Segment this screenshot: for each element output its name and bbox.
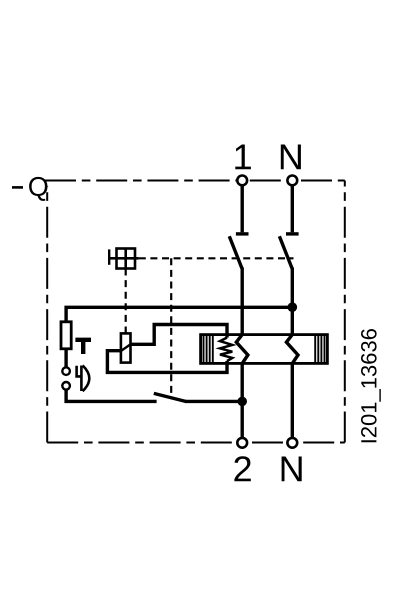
trip coil diagonal bbox=[121, 344, 131, 351]
wire test contact to bottom run bbox=[66, 390, 157, 402]
wire pole 1 upper bbox=[240, 186, 243, 233]
manual actuator square bbox=[117, 249, 136, 269]
wire test branch top (N tap to resistor) bbox=[66, 307, 292, 322]
manual actuator cross horizontal bbox=[109, 257, 139, 260]
mechanical linkage to trip coil (dashed) bbox=[125, 269, 127, 334]
pole 1 switch blade bbox=[229, 236, 242, 269]
enclosure boundary top (dash-dot) bbox=[45, 180, 345, 182]
secondary circuit wiring loop bbox=[107, 325, 227, 373]
wire pole N upper bbox=[291, 186, 294, 233]
terminal label 2 bbox=[234, 456, 250, 481]
terminal 2 circle bbox=[237, 438, 247, 448]
push-button actuator arc bbox=[83, 365, 90, 391]
test button contact lower circle bbox=[62, 382, 70, 390]
auxiliary test contact blade bbox=[154, 393, 187, 401]
enclosure boundary left (dash-dot) bbox=[46, 186, 48, 443]
device label -Q dash bbox=[12, 186, 23, 189]
wire pole N middle bbox=[291, 268, 294, 335]
push-button actuator bar bbox=[80, 366, 83, 392]
mechanical linkage to test contact (dashed) bbox=[170, 258, 172, 393]
secondary winding zigzag bbox=[220, 338, 232, 361]
terminal label N bottom bbox=[282, 457, 302, 482]
push-button actuator stem bbox=[77, 366, 82, 377]
drawing number I201_13636 bbox=[361, 329, 381, 442]
pole N switch blade bbox=[279, 236, 292, 269]
test resistor bbox=[61, 322, 71, 349]
core hatching right bbox=[315, 335, 324, 364]
primary winding pole N (zigzag through core) bbox=[286, 335, 298, 364]
junction dot on pole 1 bbox=[237, 397, 247, 407]
terminal 1 circle bbox=[237, 176, 247, 186]
wire test contact to pole 1 bbox=[186, 400, 243, 403]
current transformer core bbox=[201, 335, 328, 364]
primary winding pole 1 (zigzag through core) bbox=[236, 335, 248, 364]
enclosure boundary right (dash-dot) bbox=[344, 181, 346, 443]
enclosure boundary bottom (dash-dot) bbox=[47, 442, 345, 444]
wire resistor to test contact bbox=[64, 349, 67, 368]
core hatching left bbox=[204, 335, 213, 364]
terminal N bottom circle bbox=[287, 438, 297, 448]
wire pole 1 middle bbox=[240, 268, 243, 335]
manual actuator cross vertical bbox=[124, 249, 127, 269]
manual actuator end tick bbox=[108, 249, 110, 264]
mechanical linkage horizontal (dashed) bbox=[139, 257, 294, 259]
pole 1 fixed contact bar bbox=[236, 232, 249, 235]
wire pole 1 lower bbox=[240, 363, 243, 437]
terminal label 1 bbox=[235, 145, 251, 170]
junction dot on N bbox=[288, 302, 298, 312]
wire pole N lower bbox=[291, 363, 294, 437]
pole N fixed contact bar bbox=[286, 232, 299, 235]
trip coil (release) bbox=[121, 333, 131, 362]
device label -Q letter bbox=[29, 177, 47, 201]
terminal N top circle bbox=[287, 176, 297, 186]
test button label T bbox=[75, 340, 91, 354]
test button contact upper circle bbox=[62, 367, 70, 375]
terminal label N top bbox=[281, 145, 301, 170]
